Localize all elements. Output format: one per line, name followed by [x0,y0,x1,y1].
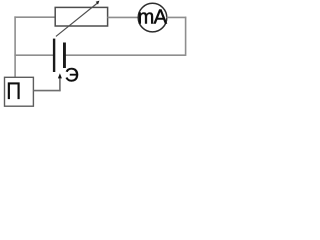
electrode plate left (cathode) [53,39,55,72]
svg-text:mA: mA [138,7,168,29]
wire top-left horizontal [14,16,55,18]
wire milliammeter to top-right corner [166,16,186,18]
wire П box to light arrow (horizontal) [34,90,61,92]
svg-text:П: П [6,78,21,105]
wire resistor to milliammeter [107,16,138,18]
svg-text:Э: Э [65,65,79,87]
resistor R (rheostat) box [55,7,107,26]
wire left vertical [14,16,16,77]
wire left to left electrode [14,54,53,56]
light arrowhead [58,73,62,78]
wire right vertical [185,17,187,56]
rheostat diagonal arrow shaft [56,3,98,36]
device box П [5,77,34,106]
milliammeter mA circle [138,3,167,32]
rheostat arrowhead [96,1,100,5]
electrode plate right (anode) [63,43,66,69]
wire bottom horizontal to right electrode [66,54,186,56]
wire light arrow vertical shaft [59,77,61,91]
